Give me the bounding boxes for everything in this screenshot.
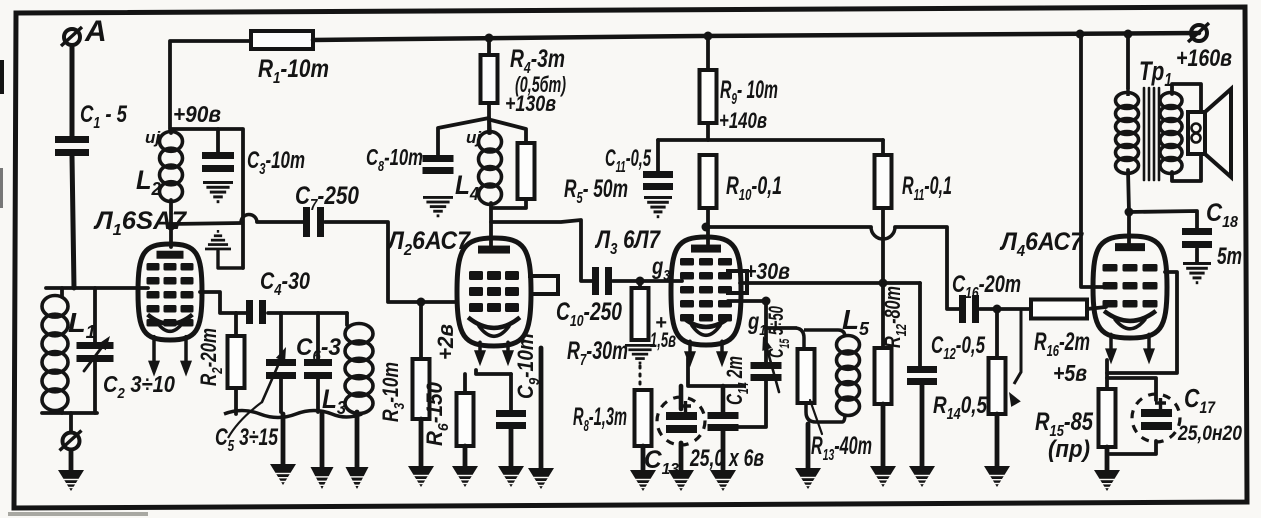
svg-text:иј: иј bbox=[466, 128, 482, 147]
svg-text:R9​- 10т: R9​- 10т bbox=[720, 76, 778, 108]
svg-text:Л2​6АС7: Л2​6АС7 bbox=[386, 227, 471, 259]
svg-text:C4​-30: C4​-30 bbox=[260, 268, 311, 299]
svg-text:C5​ 3÷15: C5​ 3÷15 bbox=[215, 424, 278, 455]
svg-text:5т: 5т bbox=[1217, 243, 1242, 270]
svg-text:R8​-1,3т: R8​-1,3т bbox=[573, 403, 627, 435]
svg-text:Л4​6АС7: Л4​6АС7 bbox=[999, 228, 1084, 260]
svg-text:+130в: +130в bbox=[505, 91, 556, 116]
svg-text:+90в: +90в bbox=[173, 101, 221, 127]
svg-text:A: A bbox=[84, 15, 107, 48]
svg-text:R10​-0,1: R10​-0,1 bbox=[726, 172, 782, 204]
svg-text:+160в: +160в bbox=[1176, 45, 1232, 72]
svg-text:+5в: +5в bbox=[1053, 360, 1087, 386]
svg-text:25,0 х 6в: 25,0 х 6в bbox=[689, 445, 764, 472]
svg-text:R16​-2т: R16​-2т bbox=[1034, 328, 1090, 360]
svg-text:+140в: +140в bbox=[719, 108, 767, 133]
svg-text:+2в: +2в bbox=[433, 324, 458, 360]
svg-text:R5​- 50т: R5​- 50т bbox=[564, 175, 628, 207]
svg-text:+30в: +30в bbox=[745, 258, 790, 284]
svg-text:R13​-40т: R13​-40т bbox=[811, 432, 872, 464]
svg-text:иј: иј bbox=[145, 128, 161, 147]
svg-text:R1​-10т: R1​-10т bbox=[258, 55, 329, 87]
svg-text:Л3​ 6Л7: Л3​ 6Л7 bbox=[594, 226, 661, 258]
svg-text:C16​-20т: C16​-20т bbox=[952, 271, 1021, 302]
svg-text:C7​-250: C7​-250 bbox=[295, 182, 359, 214]
svg-text:C3​-10т: C3​-10т bbox=[247, 147, 305, 178]
svg-text:R14​0,5: R14​0,5 bbox=[933, 392, 988, 423]
svg-text:C1​ - 5: C1​ - 5 bbox=[80, 101, 127, 132]
svg-text:C11​-0,5: C11​-0,5 bbox=[605, 145, 651, 176]
svg-text:1,5в: 1,5в bbox=[650, 329, 676, 352]
svg-text:C15​ 5÷50: C15​ 5÷50 bbox=[765, 306, 792, 358]
svg-text:R11​-0,1: R11​-0,1 bbox=[902, 172, 952, 204]
svg-text:25,0н20: 25,0н20 bbox=[1177, 422, 1242, 445]
svg-text:R7​-30т: R7​-30т bbox=[567, 337, 628, 369]
svg-text:C12​-0,5: C12​-0,5 bbox=[931, 332, 985, 363]
svg-text:(пр): (пр) bbox=[1048, 436, 1090, 463]
svg-text:C10​-250: C10​-250 bbox=[556, 298, 622, 330]
